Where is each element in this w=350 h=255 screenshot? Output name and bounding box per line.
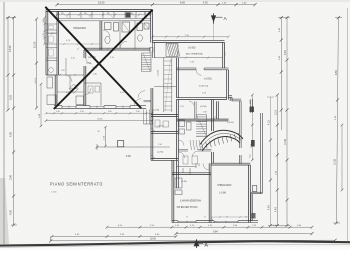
closet row partitions: [57, 17, 151, 19]
svg-text:3.90: 3.90: [9, 174, 13, 180]
crossed block top wall: [46, 9, 153, 11]
section line top: [213, 24, 215, 41]
garage ramp hatch: [166, 44, 178, 57]
stair room west wall: [211, 100, 213, 132]
scan top edge: [0, 0, 350, 2]
svg-text:(+0.50): (+0.50): [157, 126, 164, 128]
curved ramp: [202, 136, 240, 151]
svg-text:(+0.50): (+0.50): [204, 78, 212, 81]
bottom dimension line left-upper: [52, 235, 176, 237]
bathroom partitions upper: [119, 21, 121, 48]
garage right wall upper: [222, 43, 224, 69]
bottom dimension line left-lower: [50, 236, 52, 241]
section marker A top: [213, 13, 215, 24]
lavanderia west wall: [171, 175, 173, 223]
crossed block left step wall: [46, 74, 57, 76]
crossed block left wall: [45, 10, 47, 75]
cross-out X diagonal 1: [45, 7, 141, 108]
svg-text:1.40: 1.40: [56, 111, 60, 113]
far right dimension line: [336, 18, 338, 223]
stairwell hall walls: [163, 58, 165, 113]
garage bottom wall: [177, 97, 227, 99]
svg-text:2.90: 2.90: [136, 111, 140, 113]
corridor walls above pranzo: [172, 159, 178, 161]
dimension line below crossed block upper: [46, 112, 152, 114]
pranzo west wall: [208, 163, 210, 222]
east wall lower: [250, 194, 252, 221]
svg-text:2.10: 2.10: [43, 33, 45, 37]
sheet right edge line: [347, 8, 349, 242]
svg-text:14.30: 14.30: [97, 119, 103, 121]
svg-text:90: 90: [226, 217, 228, 219]
interior dim ticks crossed block: [48, 33, 57, 35]
bottom dimension line right-lower: [176, 233, 312, 235]
garage top wall: [153, 40, 225, 42]
garage top dimension ticks: [153, 36, 229, 38]
inner partition lower-left: [46, 74, 84, 76]
wall between garage and wide room: [177, 67, 197, 69]
svg-text:0.90: 0.90: [249, 155, 251, 159]
bottom dimension line right-upper: [107, 226, 312, 228]
left column rooms walls: [150, 88, 152, 160]
dimension line below crossed block lower: [46, 120, 152, 122]
svg-text:2.90: 2.90: [80, 111, 84, 113]
svg-text:(-0.94): (-0.94): [200, 106, 207, 108]
svg-text:4.20: 4.20: [203, 1, 208, 4]
svg-text:2.20: 2.20: [61, 70, 65, 72]
svg-text:(+0.10): (+0.10): [35, 78, 37, 84]
east wall step: [251, 191, 262, 193]
mid dimension line with column marker: [97, 146, 170, 148]
kitchen sink circle: [49, 68, 54, 73]
crossed block right wall: [150, 10, 152, 43]
svg-text:90: 90: [186, 217, 188, 219]
ramp lower hatch: [190, 140, 192, 150]
garage step wall: [223, 67, 229, 69]
svg-text:10.50: 10.50: [34, 41, 37, 48]
svg-text:3.10: 3.10: [274, 110, 277, 115]
svg-text:32.80 mq: 32.80 mq: [199, 85, 209, 87]
svg-text:(1.40): (1.40): [86, 63, 91, 65]
left plan-adjacent small dims: [44, 18, 46, 44]
south wing interior details: [175, 178, 182, 188]
right dimension cluster lines: [270, 97, 272, 226]
svg-text:4.15: 4.15: [268, 120, 271, 125]
sheet left edge line: [3, 2, 5, 244]
closet door marks: [62, 12, 68, 17]
inner wall left vertical: [56, 11, 58, 75]
near-wall right dims: [251, 95, 253, 160]
svg-text:4.30: 4.30: [9, 131, 13, 137]
pranzo east wall: [248, 165, 250, 223]
svg-text:90: 90: [98, 131, 100, 133]
svg-text:4.10: 4.10: [71, 58, 75, 60]
svg-text:6.50: 6.50: [126, 155, 131, 158]
svg-text:4.40: 4.40: [274, 207, 277, 212]
tub diamond symbol: [69, 84, 78, 93]
upper room dim ticks: [63, 43, 65, 45]
svg-text:3.55: 3.55: [9, 94, 13, 100]
lower staircase hatch: [196, 114, 206, 116]
svg-text:(+0.05): (+0.05): [158, 70, 160, 76]
svg-text:14.35: 14.35: [284, 138, 287, 145]
dark closet box: [126, 12, 131, 17]
cross-out X diagonal 2: [54, 10, 153, 109]
svg-text:PRANZO: PRANZO: [218, 183, 233, 187]
svg-text:(+0.90): (+0.90): [188, 48, 196, 50]
svg-text:90: 90: [245, 217, 247, 219]
upper staircase hatch: [142, 52, 152, 54]
svg-text:PRANZO: PRANZO: [74, 26, 87, 30]
east boundary wall: [260, 113, 262, 193]
sheet bottom dark band: [0, 241, 350, 245]
svg-text:1:100: 1:100: [51, 192, 57, 194]
svg-text:6.60: 6.60: [180, 0, 186, 4]
wc block walls: [172, 172, 211, 174]
left column partitions: [46, 23, 57, 25]
inner wall mid vertical lower: [83, 50, 85, 58]
svg-text:4.50: 4.50: [9, 209, 13, 215]
svg-text:(+0.50): (+0.50): [227, 122, 234, 124]
scan shading bottom-left corner: [0, 178, 9, 244]
left column fixtures: [155, 120, 160, 127]
svg-text:12.30: 12.30: [334, 158, 337, 165]
svg-text:STENDITOIO: STENDITOIO: [177, 207, 198, 209]
top window dimension ticks: [57, 14, 151, 16]
svg-text:4.40: 4.40: [268, 205, 271, 210]
svg-text:15.60: 15.60: [98, 0, 105, 4]
kitchen counters lower-left: [47, 95, 56, 105]
svg-text:(-1.84): (-1.84): [219, 192, 226, 195]
svg-text:9.84: 9.84: [213, 231, 218, 234]
inner wall mid vertical upper: [99, 21, 101, 50]
door arc to exterior steps: [134, 99, 141, 106]
mid-right wall vertical: [238, 101, 240, 148]
section marker A bottom: [196, 239, 198, 248]
svg-text:2.65: 2.65: [108, 111, 112, 113]
mid-right connecting walls: [229, 94, 233, 96]
wc fixtures mid: [179, 120, 185, 127]
svg-text:1.30: 1.30: [93, 74, 97, 76]
svg-text:(-0.94): (-0.94): [157, 152, 163, 154]
pranzo top wall: [211, 162, 250, 164]
garage interior ticks: [185, 57, 187, 59]
svg-text:AUTORIMESSA: AUTORIMESSA: [186, 53, 203, 56]
svg-text:PIANO SEMINTERRATO: PIANO SEMINTERRATO: [50, 182, 103, 188]
svg-text:LAVANDERIA: LAVANDERIA: [180, 200, 202, 203]
svg-text:90: 90: [204, 217, 206, 219]
east terrace wall upper stub: [250, 99, 252, 113]
svg-text:5.45: 5.45: [284, 50, 287, 55]
bathroom fixtures upper: [105, 23, 112, 30]
inner wall mid horizontal: [84, 47, 151, 49]
left dimension line inner: [36, 19, 38, 108]
left dimension line outer: [7, 18, 9, 110]
svg-text:14.35: 14.35: [8, 45, 12, 52]
svg-text:8.55: 8.55: [335, 70, 338, 75]
terrace pier: [251, 140, 255, 147]
exterior steps right of crossed block: [143, 110, 145, 125]
south bottom wall with windows: [172, 222, 258, 224]
mid rooms row walls: [177, 118, 229, 120]
garage left inner wall: [176, 58, 178, 98]
top dimension line: [57, 4, 255, 6]
long inner wall west of stairs: [176, 100, 178, 189]
svg-text:(-0.94): (-0.94): [154, 110, 160, 112]
wc fixtures lower-left room: [88, 86, 93, 93]
garage west wall box: [150, 48, 154, 53]
svg-text:1.40: 1.40: [43, 19, 45, 23]
wc dividing wall: [178, 149, 188, 151]
svg-text:2.35: 2.35: [225, 52, 227, 56]
scan noise overlay: [0, 0, 1, 1]
crossed block bottom wall with windows: [54, 107, 146, 109]
svg-text:18.60: 18.60: [150, 239, 156, 241]
